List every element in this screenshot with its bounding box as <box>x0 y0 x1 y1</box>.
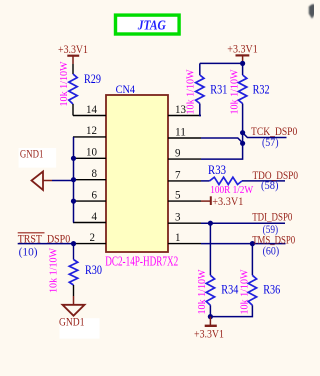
svg-text:TCK_DSP0: TCK_DSP0 <box>251 124 297 138</box>
pin 10 <box>73 145 106 159</box>
wire power rail to R31 <box>200 62 243 64</box>
title box JTAG <box>116 15 180 34</box>
svg-text:12: 12 <box>86 123 97 137</box>
wire TMS net <box>201 243 286 245</box>
svg-text:6: 6 <box>92 187 98 201</box>
svg-text:R32: R32 <box>253 81 270 96</box>
junction TCK lower <box>240 141 245 146</box>
resistor R29 <box>69 74 77 104</box>
junction at pin 6 <box>71 199 76 204</box>
wire R33 to TDO net <box>242 180 285 182</box>
wire R31 to pin 13 <box>200 104 201 116</box>
svg-text:TDI_DSP0: TDI_DSP0 <box>252 210 292 224</box>
svg-text:+3.3V1: +3.3V1 <box>58 42 88 56</box>
wire R30 to ground <box>73 285 75 305</box>
wire R29 to pin 14 <box>72 104 74 116</box>
junction TDI / R34 <box>208 221 213 226</box>
wire TDI junction down to R34 <box>209 223 211 275</box>
wire TMS junction down to R36 <box>251 244 253 276</box>
svg-text:10k 1/10W: 10k 1/10W <box>186 69 197 114</box>
svg-text:14: 14 <box>86 102 97 116</box>
wire R34/R36 bottom rail <box>210 305 252 316</box>
svg-text:R30: R30 <box>85 262 102 277</box>
wire ground bus pins 12-4 <box>73 137 75 223</box>
resistor R33 <box>210 177 243 184</box>
svg-text:10k 1/10W: 10k 1/10W <box>49 248 60 293</box>
junction at pin 8 <box>71 177 76 182</box>
junction bottom power <box>208 314 213 319</box>
ground symbol (left, GND1) <box>32 172 53 191</box>
power +3.3V1 (top right) <box>227 42 257 64</box>
svg-text:2: 2 <box>90 230 96 244</box>
svg-text:+3.3V1: +3.3V1 <box>194 327 224 341</box>
svg-text:1: 1 <box>175 230 181 244</box>
svg-text:(58): (58) <box>261 180 279 192</box>
connector CN4 body <box>106 95 168 252</box>
net label TRST_DSP0 with overline <box>18 231 70 245</box>
pin 4 <box>73 209 106 223</box>
pin 14 <box>73 102 106 116</box>
wire down to R31 <box>199 63 201 75</box>
net label GND1 (left) <box>19 148 57 168</box>
svg-text:(60): (60) <box>263 245 280 257</box>
pin 9 <box>168 145 201 159</box>
net label GND1 (bottom) <box>59 317 100 339</box>
junction TMS / R36 <box>250 241 255 246</box>
svg-text:13: 13 <box>175 102 186 116</box>
svg-text:TMS_DSP0: TMS_DSP0 <box>252 232 295 246</box>
svg-text:10k 1/10W: 10k 1/10W <box>59 61 70 106</box>
wire pin 11 jog <box>201 138 243 143</box>
junction pin 2 / R30 <box>71 241 76 246</box>
gray cursor artifact top-right <box>309 4 316 18</box>
wire R32 down to pin 9 <box>201 104 243 160</box>
svg-text:R29: R29 <box>84 71 101 86</box>
pin 5 <box>168 187 201 201</box>
pin 2 <box>74 230 107 244</box>
svg-text:R31: R31 <box>210 81 227 96</box>
pin 3 <box>168 210 201 224</box>
svg-text:(10): (10) <box>19 247 38 259</box>
wire TRST net to pin 2 <box>18 243 74 245</box>
power +3.3V1 (top left) <box>58 42 88 64</box>
svg-text:7: 7 <box>175 168 181 182</box>
svg-text:10: 10 <box>86 145 97 159</box>
svg-text:GND1: GND1 <box>20 149 44 161</box>
svg-text:+3.3V1: +3.3V1 <box>212 194 243 208</box>
resistor R31 <box>196 75 204 103</box>
svg-text:10k 1/10W: 10k 1/10W <box>197 269 208 314</box>
svg-text:8: 8 <box>92 166 98 180</box>
resistor R30 <box>69 260 77 286</box>
pin 8 <box>73 166 106 180</box>
pin 7 <box>168 168 201 182</box>
pin 12 <box>73 123 106 137</box>
svg-text:GND1: GND1 <box>59 317 85 329</box>
svg-text:R34: R34 <box>221 281 238 296</box>
svg-text:CN4: CN4 <box>116 82 135 96</box>
wire pin 7 to R33 <box>201 180 210 182</box>
svg-text:(57): (57) <box>262 137 279 149</box>
junction power / R32 <box>240 61 245 66</box>
ground symbol (bottom, GND1) <box>63 305 85 316</box>
svg-text:11: 11 <box>175 124 186 138</box>
power +3.3V1 (at pin 5) <box>201 194 243 208</box>
resistor R34 <box>206 275 214 305</box>
svg-text:9: 9 <box>175 145 181 159</box>
junction at pin 10 <box>71 156 76 161</box>
svg-text:JTAG: JTAG <box>137 18 166 33</box>
svg-text:+3.3V1: +3.3V1 <box>227 42 257 56</box>
svg-text:5: 5 <box>175 187 181 201</box>
wire down to R32 <box>242 63 244 75</box>
svg-text:4: 4 <box>92 209 98 223</box>
svg-text:R36: R36 <box>263 281 280 296</box>
wire junction to R30 <box>73 244 75 260</box>
svg-text:R33: R33 <box>208 162 226 177</box>
svg-text:10k 1/10W: 10k 1/10W <box>240 269 251 314</box>
wire TCK net out <box>243 133 287 138</box>
resistor R32 <box>238 75 246 103</box>
pin 13 <box>168 102 201 116</box>
resistor R36 <box>248 275 256 305</box>
pin 1 <box>168 230 201 244</box>
pin 6 <box>73 187 106 201</box>
wire TDI net <box>201 222 285 224</box>
svg-text:10k 1/10W: 10k 1/10W <box>230 69 241 114</box>
pin 11 <box>168 124 201 138</box>
svg-text:3: 3 <box>175 210 181 224</box>
power +3.3V1 (bottom) <box>194 317 224 341</box>
svg-text:DC2-14P-HDR7X2: DC2-14P-HDR7X2 <box>105 253 178 268</box>
wire power to R29 <box>72 64 74 74</box>
junction TCK upper <box>240 130 245 135</box>
wire ground symbol to bus <box>52 180 74 182</box>
